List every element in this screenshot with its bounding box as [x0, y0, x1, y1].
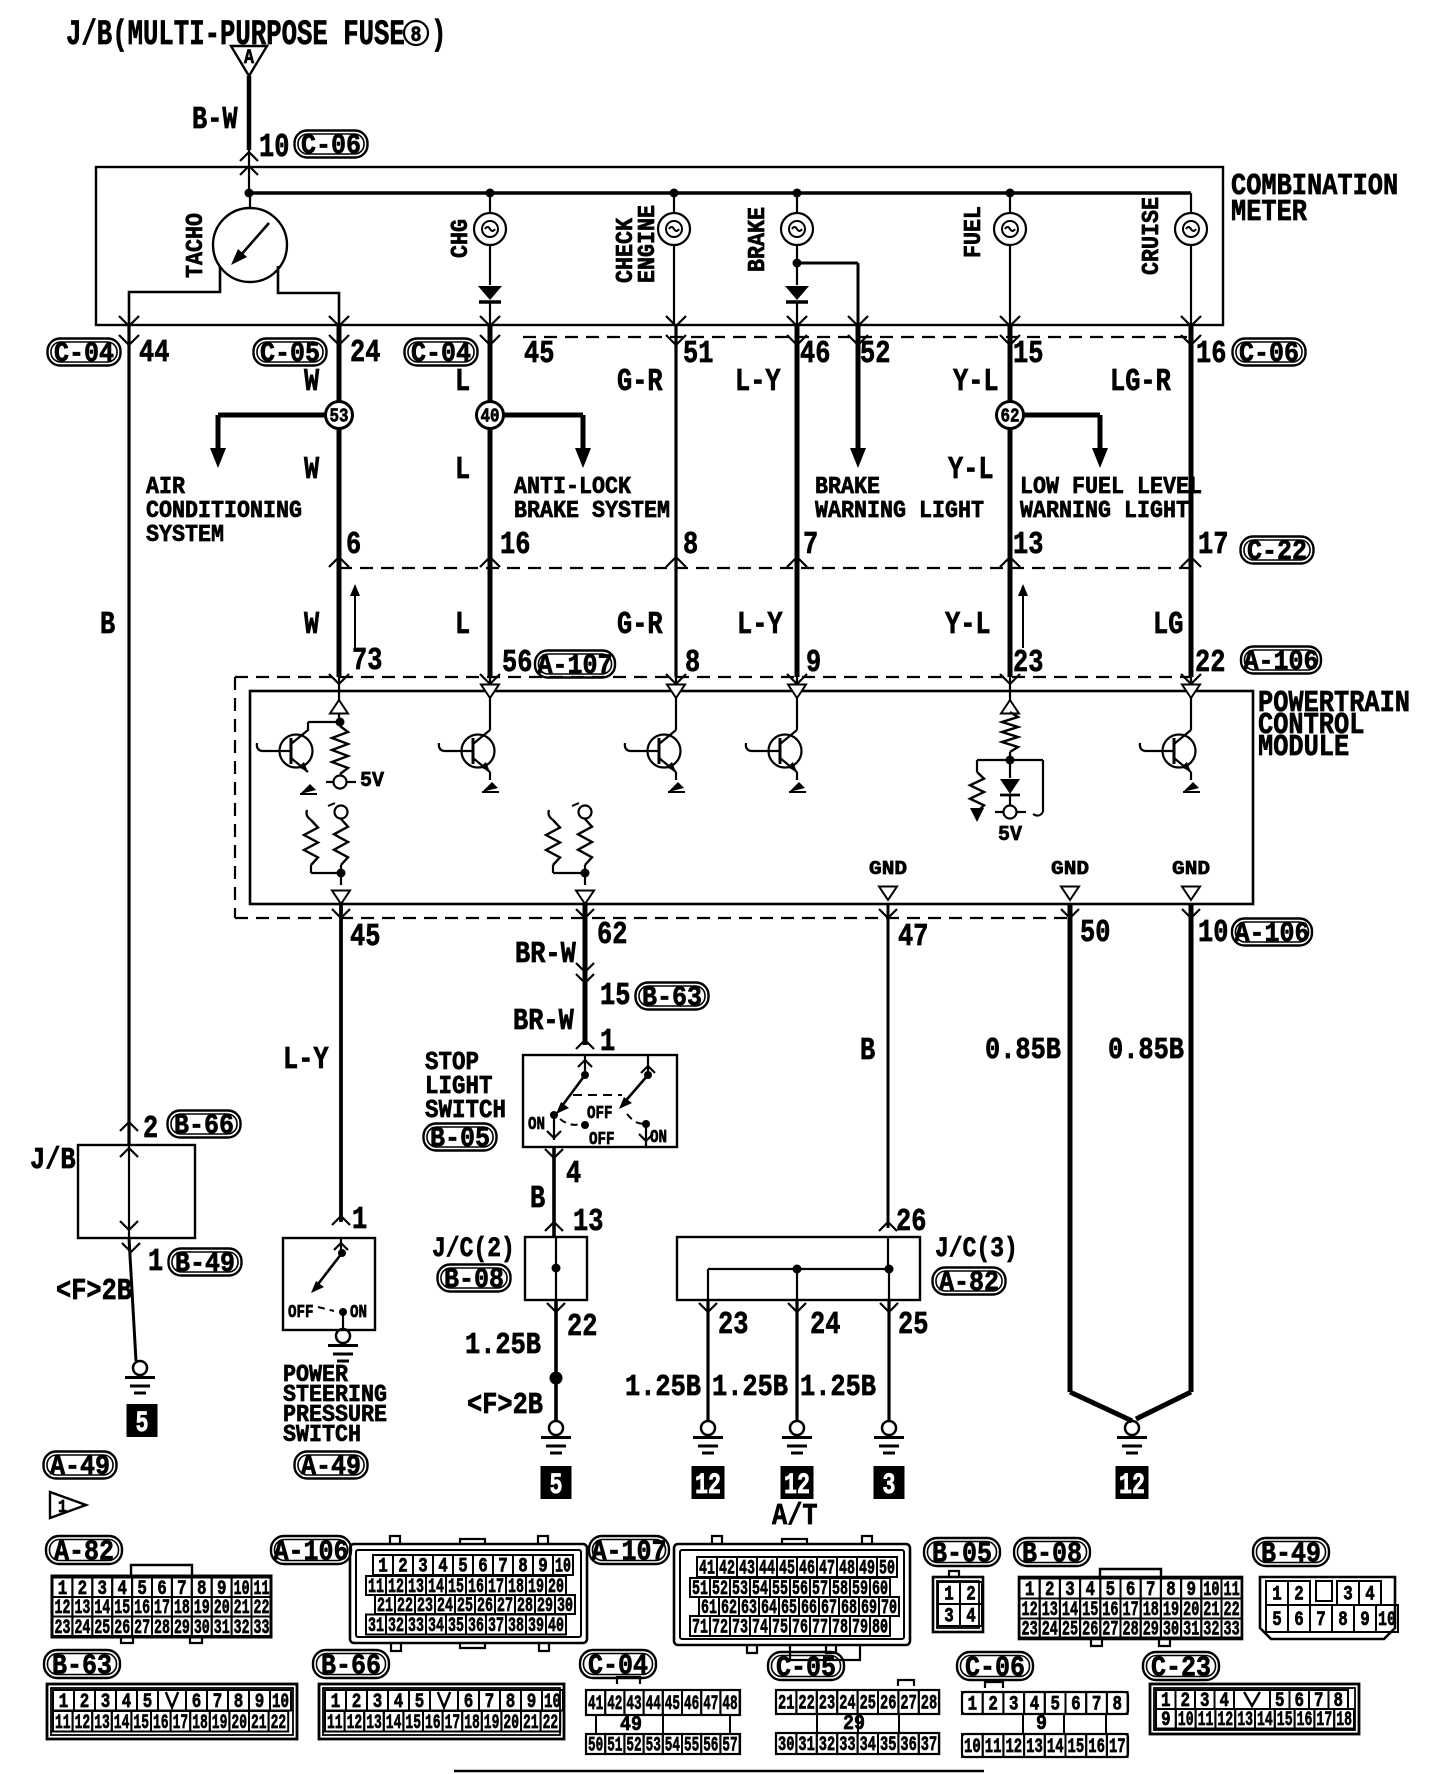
ground point 12 [692, 1466, 725, 1503]
wire 52 to brake warning light [850, 325, 866, 468]
C-22 crossing x=1191 [1181, 557, 1201, 567]
svg-text:35: 35 [448, 1615, 464, 1638]
pin label 13 [1013, 527, 1043, 563]
pin label 50 [1080, 915, 1110, 951]
stop light switch box [523, 1055, 677, 1147]
pin label 13 [573, 1204, 603, 1240]
connector pinout label A-107 [589, 1536, 669, 1569]
svg-text:23: 23 [1022, 1619, 1038, 1642]
direction arrow up (col Y-L) [1018, 584, 1028, 648]
svg-text:5: 5 [1272, 1609, 1282, 1632]
pin label 22 [1195, 645, 1225, 681]
connector pinout A-107 [674, 1536, 910, 1660]
splice 62 branch to low fuel warning [1010, 415, 1108, 468]
connector pinout C-06 [962, 1682, 1128, 1759]
svg-text:30: 30 [778, 1734, 794, 1757]
svg-text:13: 13 [366, 1712, 382, 1735]
svg-text:37: 37 [488, 1615, 504, 1638]
connector pinout label A-82 [46, 1536, 122, 1569]
label ANTI-LOCK BRAKE SYSTEM [514, 474, 631, 501]
svg-text:13: 13 [94, 1712, 110, 1735]
PCM input 73 terminal [330, 677, 348, 722]
svg-text:12: 12 [1005, 1736, 1022, 1759]
label BRAKE [745, 207, 772, 272]
splice circle 53 [326, 402, 353, 429]
A-106/107 crossing x=1191 [1181, 674, 1201, 684]
svg-text:44: 44 [646, 1693, 661, 1716]
wire L-Y col 46 [795, 325, 800, 677]
svg-text:31: 31 [798, 1734, 814, 1757]
wire 45 output [332, 904, 350, 1222]
wire color label BR-W [513, 1005, 574, 1039]
label ON [528, 1115, 545, 1135]
pin label 47 [898, 919, 928, 955]
wire color label L [455, 607, 470, 643]
pin label 26 [896, 1204, 926, 1240]
svg-text:30: 30 [1163, 1619, 1179, 1642]
svg-text:23: 23 [55, 1617, 71, 1640]
brake lamp branch to 52 [793, 259, 859, 326]
svg-text:20: 20 [231, 1712, 247, 1735]
note triangle 1 [50, 1492, 86, 1518]
svg-text:76: 76 [792, 1617, 808, 1640]
pin label 73 [352, 643, 382, 679]
pin label 17 [1198, 527, 1228, 563]
wire B col 44 [127, 325, 130, 1145]
dashed connector line C-22 [339, 567, 1191, 569]
svg-text:9: 9 [1360, 1609, 1370, 1632]
label TACHO [183, 213, 210, 278]
funnel ground wires [1070, 1392, 1191, 1421]
label POWER STEERING PRESSURE SWITCH [283, 1362, 348, 1389]
ground point 12 A/T [781, 1466, 814, 1503]
svg-text:26: 26 [1082, 1619, 1098, 1642]
svg-text:15: 15 [1068, 1736, 1085, 1759]
svg-text:15: 15 [1277, 1709, 1293, 1732]
pin label 16 [500, 527, 530, 563]
svg-text:25: 25 [1062, 1619, 1078, 1642]
svg-text:22: 22 [543, 1712, 559, 1735]
svg-text:33: 33 [1224, 1619, 1240, 1642]
connector bubble C-06 [1233, 339, 1306, 371]
svg-text:36: 36 [468, 1615, 484, 1638]
connector pinout label C-06 [957, 1652, 1033, 1685]
splice dot [550, 1372, 563, 1385]
wire color label B [530, 1181, 545, 1217]
splice circle 40 [477, 402, 504, 429]
svg-text:52: 52 [626, 1735, 641, 1758]
PCM output 22 terminal [1182, 677, 1200, 730]
pin label 44 [139, 335, 169, 371]
meter exit crossing x=1010 [1000, 316, 1020, 345]
label ON [650, 1128, 667, 1148]
wire color label Y-L [953, 364, 999, 400]
svg-text:4: 4 [966, 1606, 976, 1629]
wire 10 output [1182, 904, 1200, 1392]
wire size label 0.85B [1108, 1034, 1184, 1068]
pin label 8 [683, 527, 698, 563]
wire color label LG [1153, 607, 1183, 643]
diode CHG [478, 286, 502, 325]
J/C(2) internal [552, 1237, 561, 1300]
svg-text:16: 16 [1297, 1709, 1313, 1732]
meter supply bus [249, 191, 1191, 194]
wire 1 to ground [122, 1238, 140, 1361]
svg-text:11: 11 [55, 1712, 71, 1735]
meter exit crossing x=797 [787, 316, 807, 345]
wire 62 output BR-W [576, 904, 594, 1045]
wire color label W [304, 452, 320, 488]
svg-text:33: 33 [408, 1615, 424, 1638]
svg-text:1: 1 [968, 1694, 978, 1717]
connector pinout B-49 [1260, 1577, 1398, 1639]
ground power steering switch [328, 1329, 358, 1361]
combination meter box [96, 167, 1223, 325]
svg-text:21: 21 [778, 1693, 794, 1716]
J/C(2) entry chevron [545, 1222, 563, 1231]
svg-text:50: 50 [588, 1735, 603, 1758]
svg-text:74: 74 [752, 1617, 768, 1640]
J/C(3) entry chevron [879, 1222, 897, 1231]
resistor col 23 [1002, 712, 1018, 760]
svg-text:27: 27 [1102, 1619, 1118, 1642]
wire CHG to diode [489, 245, 491, 285]
wire 47 output [879, 904, 897, 1228]
tachometer gauge TACHO [213, 193, 287, 282]
svg-text:4: 4 [1365, 1584, 1375, 1607]
svg-text:12: 12 [347, 1712, 363, 1735]
svg-text:31: 31 [368, 1615, 384, 1638]
svg-text:8: 8 [1338, 1609, 1348, 1632]
J/C(3) internal bus [708, 1237, 894, 1300]
PCM output 8 terminal [667, 677, 685, 730]
wire color label BR-W [515, 938, 576, 972]
dashed connector line C-06 [523, 336, 1191, 338]
splice circle 62 [997, 402, 1024, 429]
svg-text:54: 54 [665, 1735, 680, 1758]
label FUEL [961, 206, 988, 258]
wire W col 24 [337, 325, 342, 677]
pin label 52 [860, 336, 890, 372]
svg-text:34: 34 [428, 1615, 444, 1638]
svg-text:29: 29 [174, 1617, 190, 1640]
circled 8 [404, 21, 428, 48]
ground point 3 [874, 1466, 905, 1503]
svg-text:39: 39 [528, 1615, 544, 1638]
label POWERTRAIN CONTROL MODULE [1258, 687, 1410, 721]
connector bubble A-107 [535, 651, 615, 683]
svg-text:31: 31 [1183, 1619, 1199, 1642]
svg-text:7: 7 [1316, 1609, 1326, 1632]
meter exit crossing x=490 [480, 316, 500, 345]
pin label 15 [1013, 336, 1043, 372]
ground body [782, 1421, 812, 1453]
wire color label L [455, 452, 470, 488]
svg-text:40: 40 [548, 1615, 564, 1638]
svg-text:18: 18 [1336, 1709, 1352, 1732]
svg-text:28: 28 [921, 1693, 937, 1716]
direction arrow up (col W) [350, 584, 360, 648]
C-22 crossing x=339 [329, 557, 349, 567]
connector bubble B-08 [438, 1265, 511, 1297]
svg-text:2: 2 [1294, 1584, 1304, 1607]
C-22 crossing x=1010 [1000, 557, 1020, 567]
resistor branch col 23 [970, 760, 1010, 822]
wire G-R col 51 [674, 325, 677, 677]
label COMBINATION METER [1231, 170, 1398, 204]
svg-text:30: 30 [194, 1617, 210, 1640]
svg-text:22: 22 [271, 1712, 287, 1735]
svg-text:B-08: B-08 [1022, 1538, 1082, 1571]
ground body [874, 1421, 904, 1453]
pin label 51 [683, 336, 713, 372]
svg-text:27: 27 [134, 1617, 150, 1640]
splice 40 branch to ABS [490, 415, 591, 468]
svg-text:19: 19 [212, 1712, 228, 1735]
diode col 23 [1000, 760, 1020, 805]
A-106/107 crossing x=676 [666, 674, 686, 684]
pin label 10 [1198, 915, 1228, 951]
svg-text:77: 77 [812, 1617, 828, 1640]
svg-text:8: 8 [1113, 1694, 1123, 1717]
svg-text:1: 1 [1272, 1584, 1282, 1607]
GND terminal x=888 [869, 858, 907, 900]
wire color label Y-L [945, 607, 991, 643]
svg-text:26: 26 [880, 1693, 896, 1716]
connector pinout label C-23 [1143, 1652, 1219, 1685]
connector bubble C-04 [405, 339, 478, 371]
wire L col 45 [488, 325, 493, 677]
wire color label B [100, 607, 115, 643]
wire 24 to ground [788, 1300, 806, 1421]
svg-text:24: 24 [1042, 1619, 1058, 1642]
svg-text:12: 12 [1217, 1709, 1233, 1732]
connector pinout label B-49 [1253, 1538, 1329, 1571]
label CHECK ENGINE [613, 205, 662, 283]
connector pinout B-08 [1019, 1569, 1242, 1646]
GND terminal x=1070 [1051, 858, 1089, 900]
connector bubble A-49 [295, 1452, 368, 1484]
wire color label B [860, 1033, 875, 1069]
svg-text:78: 78 [832, 1617, 848, 1640]
svg-text:16: 16 [425, 1712, 441, 1735]
connector pinout label B-63 [44, 1650, 120, 1683]
label 5V [998, 823, 1022, 847]
svg-text:14: 14 [1047, 1736, 1064, 1759]
svg-text:34: 34 [860, 1734, 876, 1757]
svg-text:C-06: C-06 [965, 1652, 1025, 1685]
svg-text:32: 32 [1203, 1619, 1219, 1642]
svg-text:21: 21 [251, 1712, 267, 1735]
label A/T [772, 1500, 818, 1534]
pin label 22 [567, 1309, 597, 1345]
tacho pedestal wires [129, 266, 339, 325]
svg-text:41: 41 [588, 1693, 603, 1716]
5V terminal col 23 [995, 806, 1026, 819]
pin label 24 [350, 335, 380, 371]
svg-text:18: 18 [464, 1712, 480, 1735]
transistor Q col 8 [625, 730, 685, 792]
powertrain control module box [250, 691, 1253, 904]
ground body [125, 1361, 155, 1393]
connector pinout label B-08 [1014, 1538, 1090, 1571]
svg-text:32: 32 [388, 1615, 404, 1638]
svg-text:22: 22 [798, 1693, 814, 1716]
label CHG [448, 219, 475, 258]
connector pinout B-63 [47, 1684, 297, 1739]
chevrons B-W entering meter [240, 152, 258, 175]
connector bubble B-05 [424, 1124, 497, 1156]
stop light switch contacts [547, 1055, 655, 1147]
meter exit crossing x=1191 [1181, 316, 1201, 345]
pin label 45 [350, 919, 380, 955]
lamp CRUISE [1175, 193, 1207, 325]
PCM dashed connector boundary [235, 677, 1191, 918]
svg-text:75: 75 [772, 1617, 788, 1640]
pin label 25 [898, 1307, 928, 1343]
connector pinout C-04 [586, 1677, 740, 1758]
svg-text:26: 26 [114, 1617, 130, 1640]
wire color label Y-L [948, 452, 994, 488]
svg-text:20: 20 [503, 1712, 519, 1735]
svg-text:21: 21 [523, 1712, 539, 1735]
C-22 crossing x=490 [480, 557, 500, 567]
svg-text:33: 33 [839, 1734, 855, 1757]
svg-text:46: 46 [684, 1693, 699, 1716]
svg-text:29: 29 [1143, 1619, 1159, 1642]
connector pinout label C-04 [580, 1650, 656, 1683]
connector bubble B-66 [168, 1111, 241, 1143]
label CRUISE [1139, 197, 1166, 275]
svg-text:12: 12 [75, 1712, 91, 1735]
pin label 46 [800, 336, 830, 372]
pin label 1 [148, 1244, 163, 1280]
ground point 5 [541, 1466, 572, 1503]
pin label 1 [600, 1024, 615, 1060]
wire size label 1.25B [625, 1371, 701, 1405]
connector bubble C-05 [254, 339, 327, 371]
svg-text:2: 2 [988, 1694, 998, 1717]
J/B entry chevron [120, 1122, 138, 1157]
wire color label G-R [617, 607, 663, 643]
wire size label 1.25B [800, 1371, 876, 1405]
pin label 6 [346, 527, 361, 563]
wire 22 to ground [547, 1300, 565, 1421]
fuse triangle A [231, 46, 267, 76]
connector pinout B-05 [933, 1571, 983, 1632]
svg-text:14: 14 [386, 1712, 402, 1735]
A-106/107 crossing x=797 [787, 674, 807, 684]
svg-text:14: 14 [114, 1712, 130, 1735]
PCM input 23 terminal [1001, 677, 1019, 714]
lamp FUEL [994, 193, 1026, 325]
svg-text:31: 31 [214, 1617, 230, 1640]
ground body [693, 1421, 723, 1453]
transistor Q col 56 [439, 730, 499, 792]
svg-text:11: 11 [327, 1712, 343, 1735]
C-22 crossing x=797 [787, 557, 807, 567]
pin label 9 [806, 645, 821, 681]
wire color label B-W [192, 102, 238, 138]
svg-text:9: 9 [1036, 1712, 1047, 1736]
svg-text:33: 33 [254, 1617, 270, 1640]
svg-text:32: 32 [819, 1734, 835, 1757]
wire size label 1.25B [712, 1371, 788, 1405]
connector pinout label C-05 [768, 1652, 844, 1685]
svg-text:10: 10 [1378, 1609, 1396, 1632]
meter exit crossing x=858 [848, 316, 868, 345]
label OFF [587, 1104, 613, 1124]
wire 23 to ground [699, 1300, 717, 1421]
svg-text:17: 17 [1109, 1736, 1126, 1759]
wire 25 to ground [880, 1300, 898, 1421]
pin label 56 [502, 645, 532, 681]
wire color label G-R [617, 364, 663, 400]
svg-text:9: 9 [1161, 1709, 1171, 1732]
svg-text:28: 28 [1123, 1619, 1139, 1642]
svg-text:24: 24 [74, 1617, 90, 1640]
svg-text:13: 13 [1237, 1709, 1253, 1732]
svg-text:25: 25 [94, 1617, 110, 1640]
svg-text:C-05: C-05 [776, 1652, 836, 1685]
A-106/107 crossing x=490 [480, 674, 500, 684]
wire LG-R col 16 [1189, 325, 1194, 677]
label J/C(3) [935, 1234, 1018, 1265]
PCM output 56 terminal [481, 677, 499, 730]
stop light switch entry chevron [576, 1040, 594, 1049]
wire color label LG-R [1110, 364, 1172, 400]
wire color label W [304, 364, 320, 400]
splice 53 branch to air conditioning [210, 415, 339, 468]
pin label 2 [143, 1111, 158, 1147]
label OFF [288, 1303, 314, 1323]
connector pinout C-05 [776, 1680, 939, 1757]
GND terminal x=1191 [1172, 858, 1210, 900]
connector bubble A-106 [1232, 919, 1312, 951]
resistor pair output 45 [304, 803, 350, 904]
svg-text:17: 17 [445, 1712, 461, 1735]
svg-text:B-05: B-05 [932, 1538, 992, 1571]
connector bubble C-22 [1241, 537, 1314, 569]
resistor pair output 62 [546, 803, 594, 904]
ground body [1117, 1421, 1147, 1453]
svg-text:27: 27 [900, 1693, 916, 1716]
svg-text:16: 16 [153, 1712, 169, 1735]
svg-text:55: 55 [684, 1735, 699, 1758]
wire size label 1.25B [465, 1329, 541, 1363]
svg-text:15: 15 [405, 1712, 421, 1735]
connector bubble A-49 [44, 1452, 117, 1484]
power steering switch contact [311, 1238, 348, 1329]
connector pinout label B-05 [924, 1538, 1000, 1571]
J/B internal wire [120, 1145, 138, 1238]
svg-text:11: 11 [985, 1736, 1002, 1759]
junction connector J/C(3) box [677, 1237, 920, 1300]
pin label 16 [1196, 336, 1226, 372]
meter exit crossing x=129 [119, 316, 139, 345]
wire size label (F)2B [56, 1275, 132, 1309]
A-106/107 crossing x=339 [329, 674, 349, 684]
svg-text:71: 71 [692, 1617, 708, 1640]
transistor Q col 22 [1140, 730, 1200, 792]
wire color label L [455, 364, 470, 400]
svg-text:45: 45 [665, 1693, 680, 1716]
pin label 62 [597, 917, 627, 953]
connector pinout label A-106 [271, 1536, 351, 1569]
C-22 crossing x=676 [666, 557, 686, 567]
label BRAKE WARNING LIGHT [815, 474, 880, 501]
svg-text:28: 28 [154, 1617, 170, 1640]
